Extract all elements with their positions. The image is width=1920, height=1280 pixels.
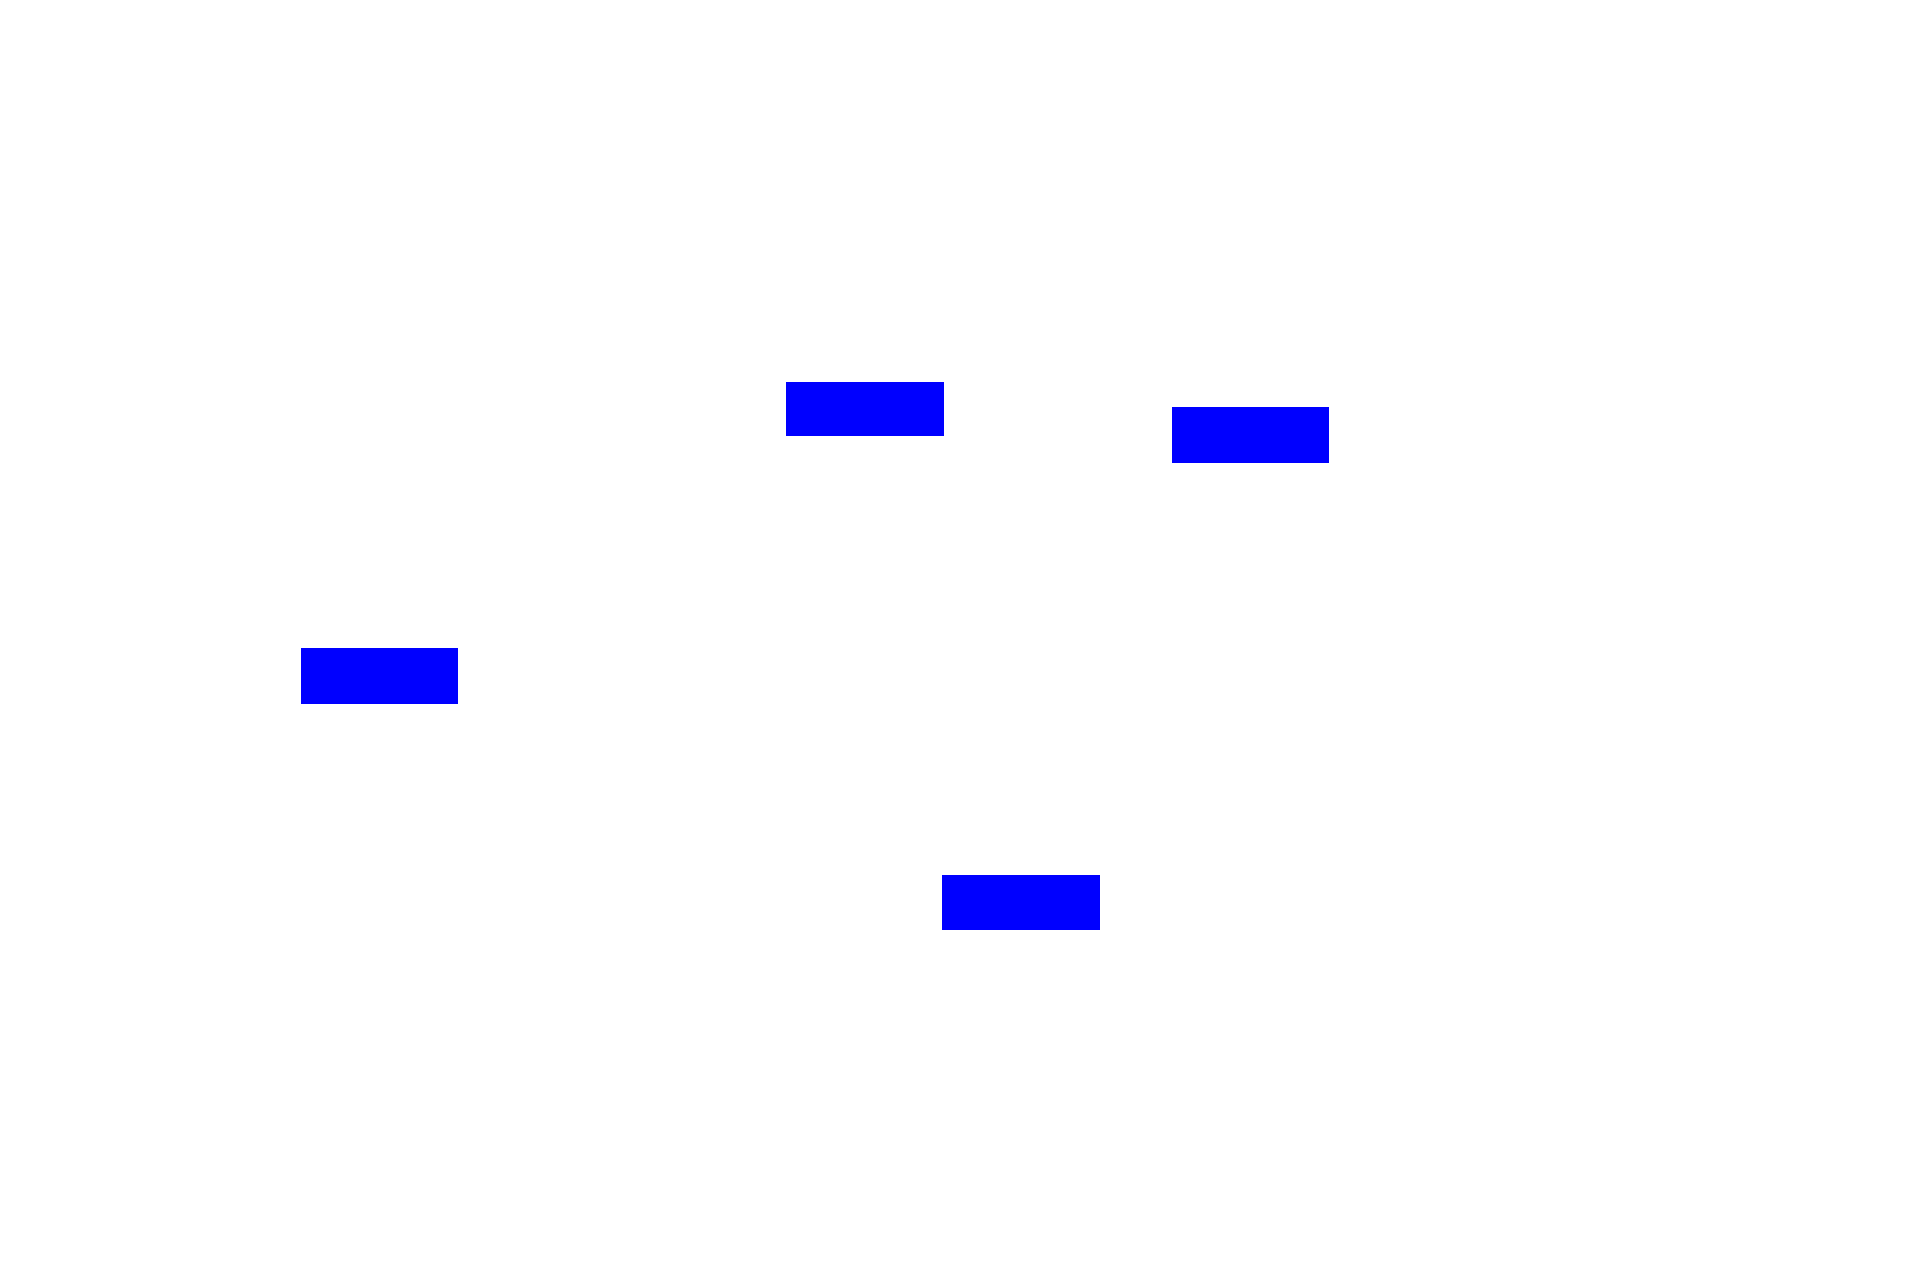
blue box 1 (top center) bbox=[786, 382, 944, 436]
blue box 2 (top right) bbox=[1172, 407, 1329, 463]
blue box 3 (middle left) bbox=[301, 648, 458, 704]
blue box 4 (bottom center) bbox=[942, 875, 1100, 930]
